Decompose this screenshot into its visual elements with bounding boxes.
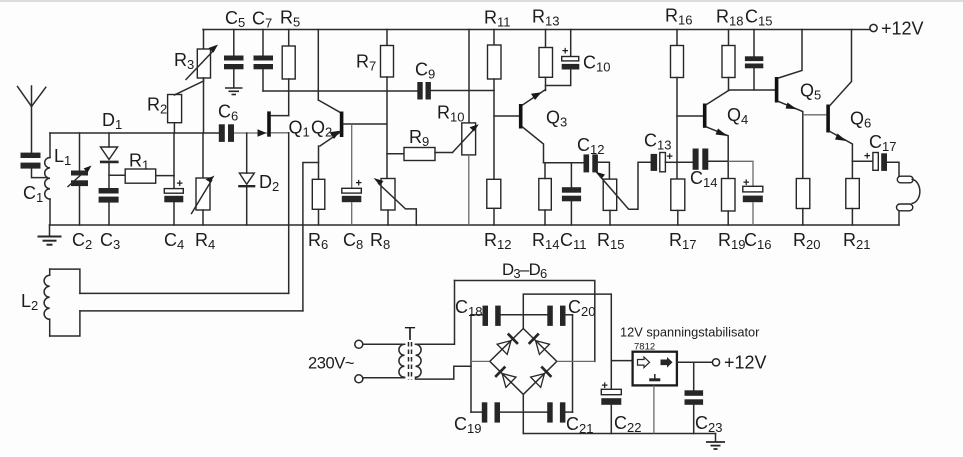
- diode D6 (lower-right arm): [531, 367, 552, 388]
- wire: bottom vertex to DC- rail: [522, 394, 524, 433]
- resistor R5: [282, 30, 295, 116]
- bridge bottom side with C19 and C21: [471, 411, 482, 413]
- bridge top side with C18 and C20: [471, 314, 483, 316]
- bridge outer square left side: [470, 315, 472, 412]
- resistor R6: [312, 179, 325, 225]
- wire: top vertex to DC+ jog: [523, 294, 611, 361]
- resistor R1: [109, 169, 174, 183]
- capacitor C7: [254, 30, 274, 92]
- variable capacitor C2: [68, 133, 92, 225]
- variable resistor R8: [374, 178, 417, 225]
- capacitor C20: [547, 306, 565, 326]
- diode D1: [100, 133, 119, 188]
- capacitor C15: [745, 30, 763, 91]
- capacitor C1: [21, 153, 48, 178]
- electrolytic C8: [342, 124, 362, 225]
- wire: AC loop over bridge (to right vertex): [455, 281, 595, 362]
- ground (power supply): [706, 434, 725, 450]
- transistor Q6: [826, 30, 852, 162]
- transistor Q1: [267, 111, 289, 136]
- +12V terminal circle: [870, 24, 877, 31]
- ground (below C5): [225, 88, 243, 95]
- capacitor C9: [417, 82, 494, 100]
- svg-text:+: +: [562, 46, 568, 58]
- svg-text:230V~: 230V~: [308, 355, 354, 373]
- ground bus (main): [50, 224, 900, 226]
- wire: L2 loop upper line to Q1 branch: [80, 292, 289, 294]
- resistor R11: [488, 30, 502, 180]
- resistor R21: [846, 161, 860, 225]
- regulator output wire: [677, 361, 713, 363]
- wire: L2 loop lower line to Q2 branch: [80, 310, 303, 312]
- earphone / speaker: [897, 176, 920, 225]
- wire: left vertex stub: [471, 360, 490, 362]
- wire: Q3 emitter node line to C12: [544, 162, 584, 164]
- antenna: [18, 86, 46, 154]
- diode D5 (lower-left arm): [495, 367, 516, 388]
- RF input line (node to D1/C6): [50, 132, 219, 134]
- resistor R19: [722, 179, 736, 226]
- electrolytic C16: [728, 161, 763, 225]
- diode D4 (upper-right arm): [529, 334, 550, 355]
- 230V~ input terminals: [355, 340, 363, 383]
- wire: Q5 emitter to Q6 base: [803, 114, 827, 116]
- resistor R16: [671, 30, 684, 180]
- resistor R2: [168, 95, 182, 134]
- electrolytic C13: [651, 151, 677, 172]
- electrolytic C22: [601, 361, 621, 434]
- capacitor C23: [685, 362, 704, 433]
- bridge outer square right side: [572, 315, 574, 412]
- page top edge: [0, 0, 963, 2]
- variable resistor R10: [453, 30, 479, 226]
- svg-text:+: +: [864, 151, 870, 163]
- capacitor C14: [677, 149, 728, 170]
- electrolytic C10: [546, 30, 580, 86]
- resistor R13: [539, 30, 553, 91]
- resistor R18: [722, 30, 735, 91]
- wire: Q2 emitter branch to L2 loop: [303, 163, 319, 311]
- svg-text:7812: 7812: [634, 342, 655, 353]
- resistor R20: [796, 179, 810, 226]
- resistor R7: [381, 30, 394, 179]
- electrolytic C4: [164, 133, 183, 225]
- diode D2: [238, 133, 255, 225]
- transformer T secondary: [416, 281, 472, 380]
- ground (main bus left): [38, 225, 62, 245]
- electrolytic C17: [852, 151, 899, 177]
- variable resistor R15: [595, 162, 651, 225]
- variable resistor R3: [174, 30, 218, 134]
- capacitor C19: [482, 402, 500, 422]
- wire: Q1 lower lead down to L2 loop: [288, 133, 290, 294]
- svg-text:+: +: [667, 151, 673, 163]
- transformer T primary: [363, 344, 405, 379]
- capacitor C18: [483, 306, 501, 326]
- wire: right vertex stub: [557, 360, 595, 362]
- diode D3 (upper-left arm): [497, 334, 518, 355]
- svg-text:12V spanningstabilisator: 12V spanningstabilisator: [620, 325, 760, 340]
- variable resistor R4: [192, 133, 215, 225]
- transistor Q3: [494, 90, 546, 163]
- 7812 regulator U1: [611, 352, 677, 434]
- node bus from C7 to C9 (decoupled rail): [263, 90, 417, 92]
- inductor L1: [45, 133, 50, 225]
- capacitor C6: [219, 124, 234, 142]
- +12V output terminal: [712, 359, 719, 366]
- capacitor C5: [224, 30, 244, 88]
- svg-text:+12V: +12V: [724, 353, 767, 373]
- top +12V supply bus: [203, 29, 870, 31]
- svg-text:+12V: +12V: [881, 19, 924, 39]
- capacitor C3: [99, 188, 119, 225]
- bridge rectifier diamond D3-D6: [490, 329, 557, 395]
- resistor R9: [387, 148, 453, 161]
- wire C6 to Q1 base (with signal arrow): [234, 129, 289, 136]
- resistor R12: [487, 179, 501, 225]
- transformer T core: [409, 342, 412, 380]
- DC- rail: [523, 433, 715, 435]
- capacitor C11: [562, 163, 581, 225]
- transistor Q2: [318, 30, 386, 180]
- svg-text:T: T: [405, 324, 416, 344]
- resistor R17: [671, 179, 685, 225]
- capacitor C21: [547, 402, 565, 422]
- transistor Q4: [677, 91, 729, 179]
- capacitor C12: [584, 154, 610, 179]
- inductor L2 (loop antenna coil): [44, 269, 80, 336]
- resistor R14: [539, 163, 552, 225]
- transistor Q5: [729, 30, 803, 179]
